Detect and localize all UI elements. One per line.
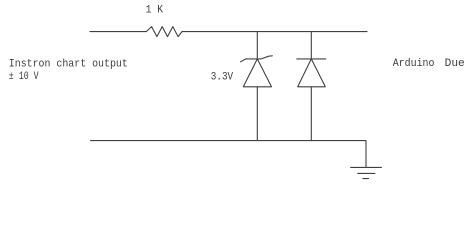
svg-text:Instron chart output: Instron chart output (9, 58, 128, 70)
resistor R (1 K) (146, 27, 182, 37)
wire ground stem (365, 141, 367, 168)
value label 3.3V (211, 71, 234, 83)
node label Arduino Due (393, 58, 465, 70)
ground symbol (351, 167, 382, 178)
diode D2 triangle (298, 59, 326, 87)
diode D2 cathode bar (297, 58, 326, 60)
wire top rail left segment (90, 31, 146, 33)
value label 1 K (146, 4, 164, 16)
svg-text:1 K: 1 K (146, 4, 164, 16)
svg-text:Arduino: Arduino (393, 58, 435, 70)
svg-text:3.3V: 3.3V (211, 71, 234, 83)
wire zener D1 anode leg (256, 87, 258, 141)
zener diode D1 triangle (243, 59, 271, 87)
svg-text:Due: Due (445, 58, 465, 70)
value label ± 10 V (9, 71, 39, 83)
wire diode D2 anode leg (310, 87, 312, 141)
node label Instron chart output (9, 58, 128, 70)
zener diode D1 cathode bar (240, 56, 272, 62)
wire diode D2 cathode leg (310, 32, 312, 59)
wire bottom rail (91, 140, 366, 142)
wire top rail right segment (182, 31, 367, 33)
svg-text:± 10 V: ± 10 V (9, 71, 39, 83)
wire zener D1 cathode leg (256, 32, 258, 59)
